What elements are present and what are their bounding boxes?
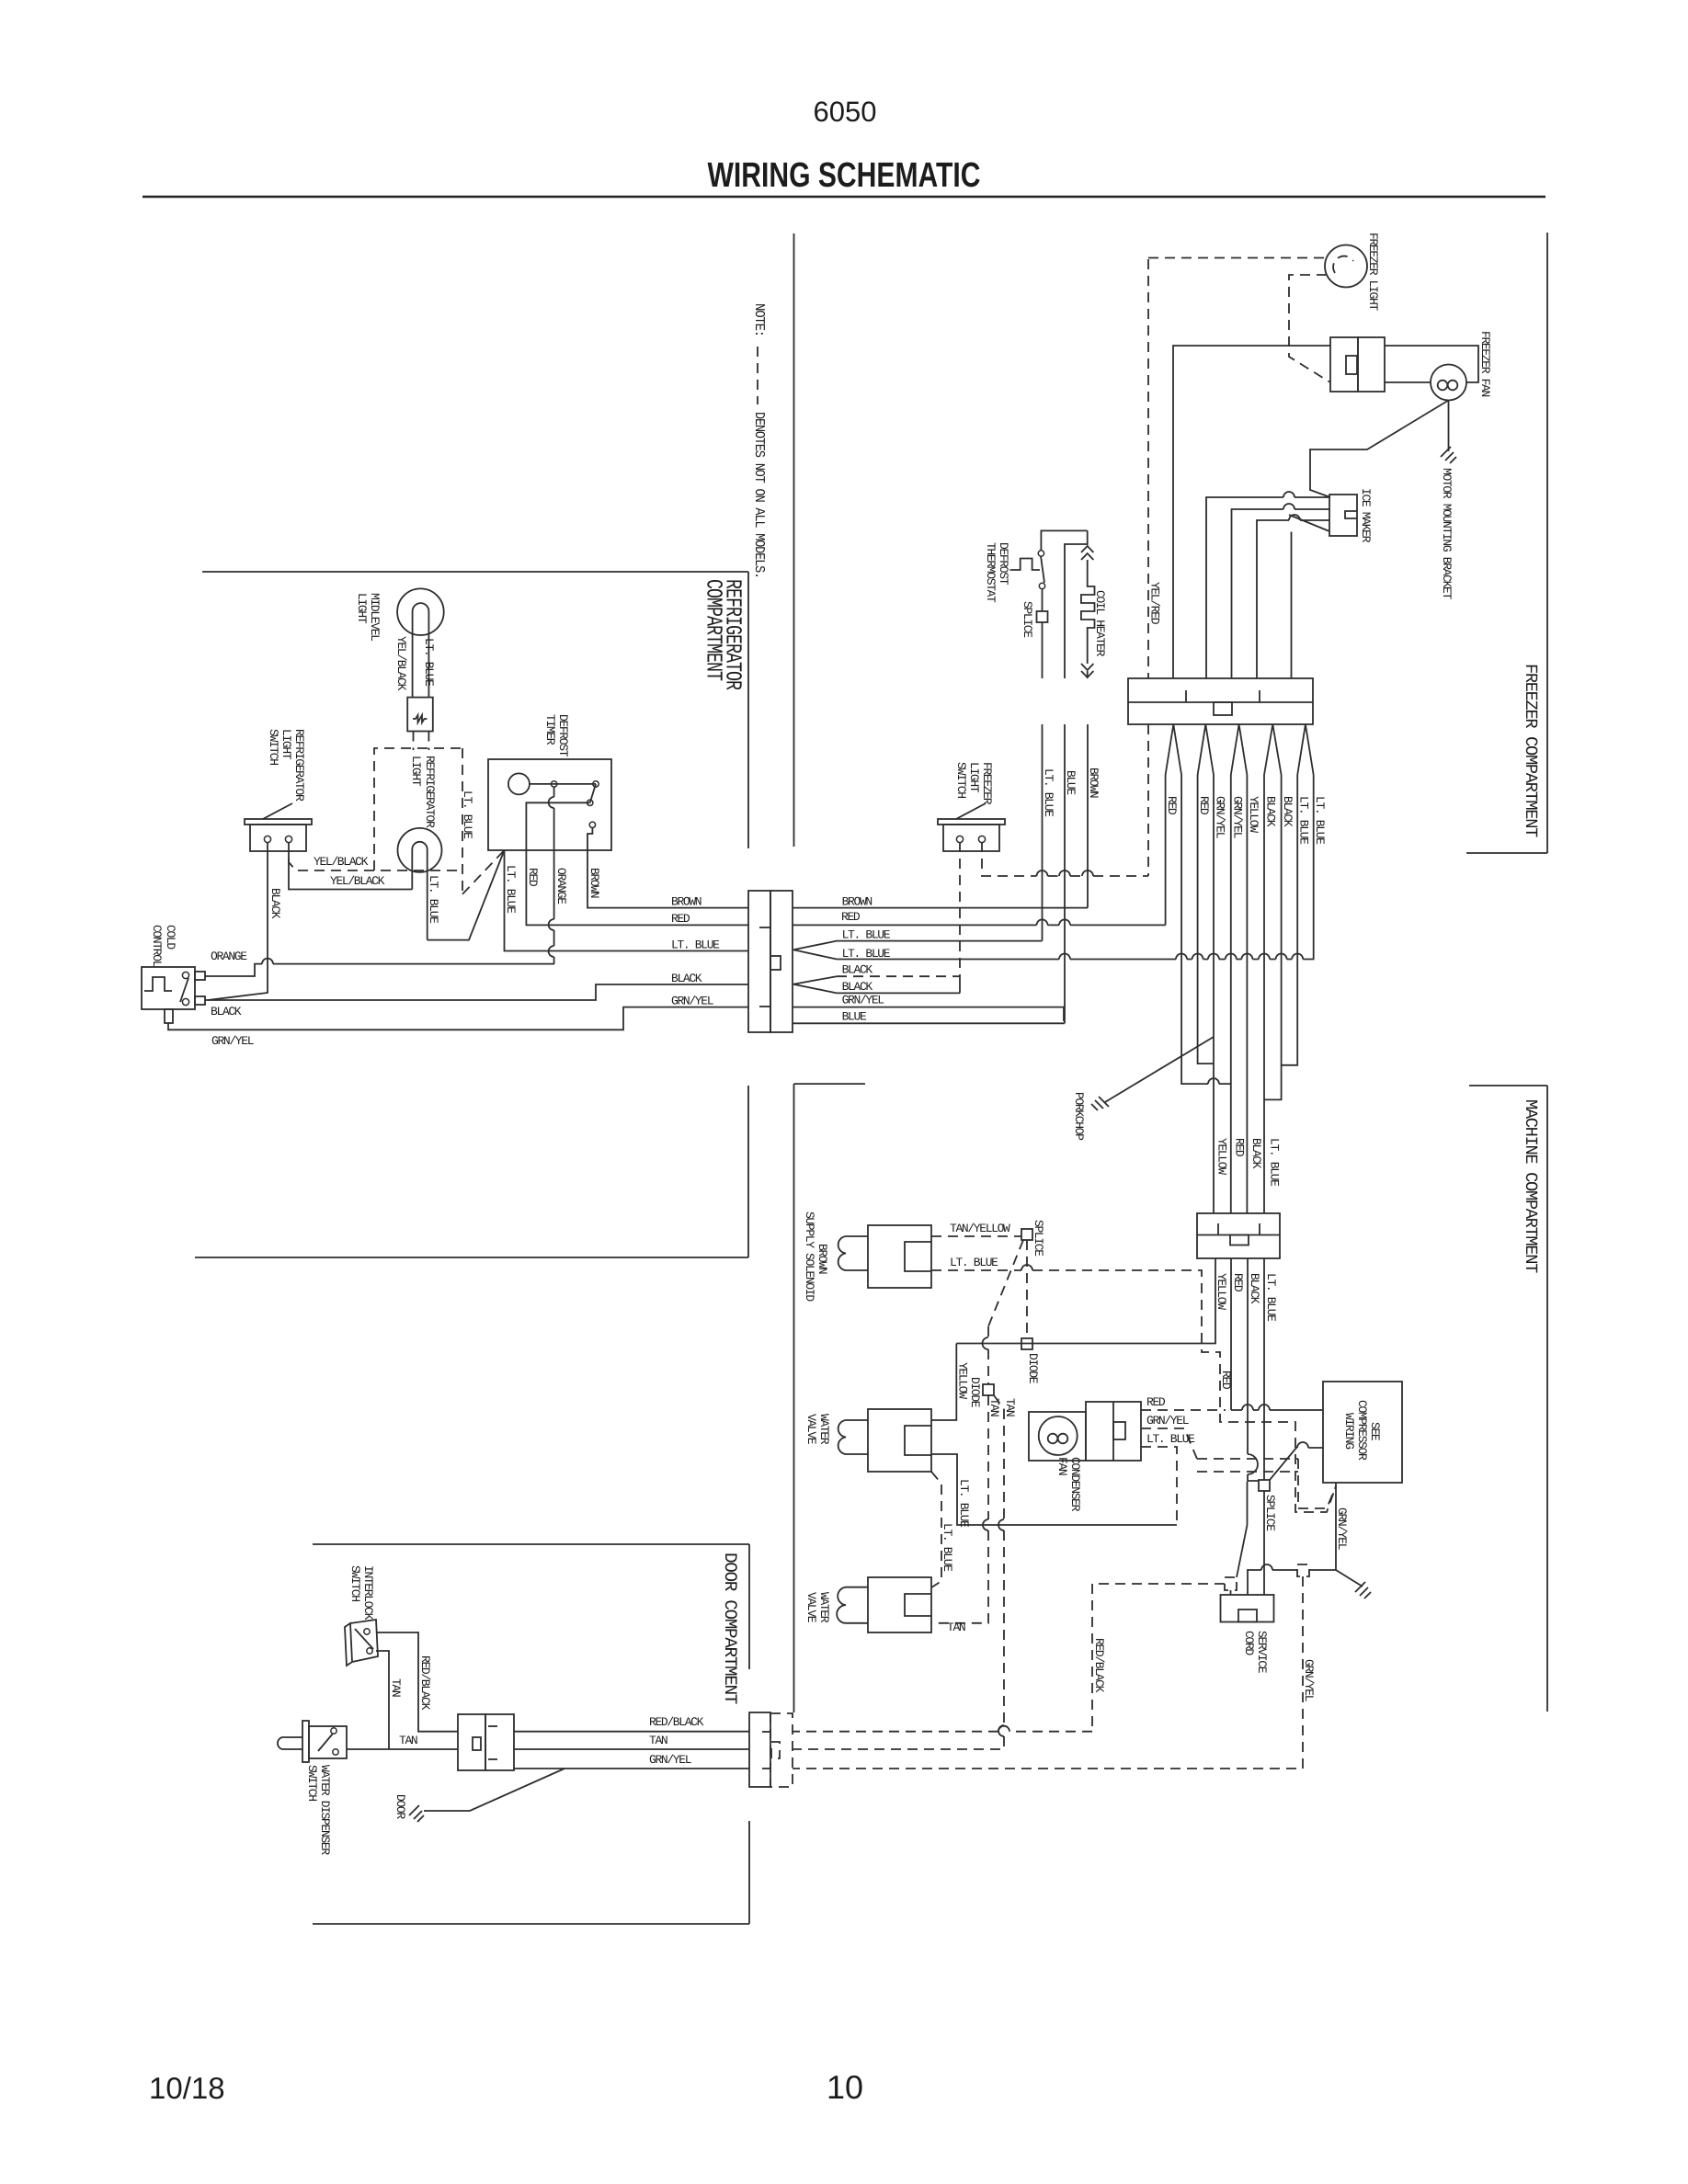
svg-text:SUPPLY SOLENOID: SUPPLY SOLENOID <box>803 1211 816 1302</box>
coil heater element <box>1081 560 1095 664</box>
svg-text:DOOR: DOOR <box>393 1794 407 1819</box>
svg-text:GRN/YEL: GRN/YEL <box>211 1034 254 1048</box>
wire BROWN below connector <box>1087 724 1089 908</box>
service cord body <box>1221 1595 1274 1622</box>
wire harness drop 1302 with step <box>1198 775 1214 1064</box>
door boundary connector dashed half <box>770 1713 793 1787</box>
refrigerator light switch screw left <box>264 836 270 842</box>
cold control switch blade <box>180 978 188 1002</box>
compressor wiring box <box>1323 1382 1402 1483</box>
wire splice 3 stub to service cord <box>1230 1590 1232 1595</box>
refrigerator light switch screw right <box>285 836 291 842</box>
splice square (freezer) <box>1037 611 1048 622</box>
svg-text:PORKCHOP: PORKCHOP <box>1072 1092 1086 1141</box>
svg-text:COLD: COLD <box>164 925 177 950</box>
door compartment border top <box>313 1543 749 1545</box>
wire TAN dispenser to connector <box>347 1748 458 1750</box>
svg-text:YELLOW: YELLOW <box>1215 1273 1228 1310</box>
orange hop over LT. BLUE <box>549 946 554 957</box>
svg-text:TAN: TAN <box>987 1398 1001 1416</box>
svg-text:RED: RED <box>841 910 861 924</box>
svg-text:YEL/BLACK: YEL/BLACK <box>314 855 369 869</box>
svg-text:LT. BLUE: LT. BLUE <box>461 791 474 839</box>
svg-text:GRN/YEL: GRN/YEL <box>1214 796 1227 838</box>
wire YEL/BLACK dashed switch to option box <box>289 842 462 870</box>
svg-text:BROWN: BROWN <box>1087 768 1101 798</box>
svg-text:BLACK: BLACK <box>842 963 873 977</box>
wire refrigerator light LT. BLUE to timer <box>428 850 505 940</box>
svg-text:COIL HEATER: COIL HEATER <box>1093 590 1107 657</box>
freezer light switch body <box>943 825 999 851</box>
svg-text:TAN: TAN <box>399 1734 417 1747</box>
door connector left half <box>458 1714 485 1770</box>
wire diode 2 to TAN drop 2 <box>994 1395 1004 1409</box>
freezer light switch screw left <box>956 836 963 842</box>
wire TAN interlock <box>376 1651 389 1749</box>
diode 1 <box>1021 1338 1032 1349</box>
machine connector tick right <box>1259 1223 1260 1235</box>
cold control bottom stub <box>165 1009 173 1023</box>
harness fan 5 <box>1297 724 1314 775</box>
ground symbol compressor <box>1355 1582 1371 1598</box>
svg-text:MACHINE COMPARTMENT: MACHINE COMPARTMENT <box>1521 1099 1540 1273</box>
svg-text:RED/BLACK: RED/BLACK <box>1092 1638 1106 1693</box>
water valve 2 connector slot <box>905 1594 931 1616</box>
svg-text:DEFROST: DEFROST <box>556 714 570 757</box>
wire fan to mounting bracket <box>1310 401 1449 498</box>
svg-text:RED/BLACK: RED/BLACK <box>418 1655 432 1711</box>
wire TAN/YELLOW dashed to splice <box>931 1235 1021 1237</box>
svg-text:TAN: TAN <box>947 1621 965 1634</box>
svg-text:LT. BLUE: LT. BLUE <box>671 938 720 952</box>
svg-text:TAN: TAN <box>649 1734 667 1747</box>
svg-text:SPLICE: SPLICE <box>1032 1220 1045 1257</box>
refrigerator connector tick lower <box>759 1006 770 1007</box>
svg-text:RED/BLACK: RED/BLACK <box>649 1715 704 1729</box>
compressor relay box <box>1086 1402 1141 1461</box>
water valve 1 coil <box>838 1420 868 1454</box>
door compartment border right lower <box>748 1821 750 1924</box>
freezer main connector body <box>1128 678 1313 724</box>
freezer compartment border right <box>1546 233 1548 853</box>
svg-text:FREEZER COMPARTMENT: FREEZER COMPARTMENT <box>1521 664 1540 837</box>
note dash sample <box>757 347 758 404</box>
svg-text:DOOR COMPARTMENT: DOOR COMPARTMENT <box>720 1553 740 1704</box>
wire GRN/YEL dashed from relay <box>1141 1428 1336 1508</box>
note divider line <box>793 233 795 847</box>
wire YELLOW into water valve 1 <box>931 1344 956 1421</box>
freezer fan motor windings <box>1438 381 1448 391</box>
svg-text:TAN: TAN <box>389 1678 403 1697</box>
wire BLUE right of connector <box>793 1022 1065 1024</box>
svg-text:LT. BLUE: LT. BLUE <box>957 1479 971 1528</box>
wire LT. BLUE below connector <box>1042 724 1044 941</box>
svg-text:BLACK: BLACK <box>1248 1273 1261 1304</box>
svg-text:YEL/BLACK: YEL/BLACK <box>330 874 385 888</box>
dashed option box right edge <box>462 748 463 894</box>
freezer light switch lever <box>956 803 986 819</box>
refrigerator light bulb <box>398 828 442 872</box>
svg-text:GRN/YEL: GRN/YEL <box>842 994 884 1007</box>
wire timer BROWN drop <box>587 827 748 908</box>
wire LT. BLUE dashed branch to water valve 2 <box>931 1472 941 1587</box>
water valve 1 connector slot <box>905 1426 931 1455</box>
refrigerator cabinet connector left half <box>748 891 770 1032</box>
freezer fan connector left half <box>1330 337 1358 392</box>
RED hop over BLUE vertical <box>1059 919 1070 925</box>
BLACK hop over diagonal <box>1289 515 1300 520</box>
LT.BLUE dashed hop over splice drop <box>1021 1265 1032 1270</box>
svg-text:DIODE: DIODE <box>1026 1353 1040 1384</box>
defrost timer contact dot 4 <box>589 822 595 827</box>
wire splice to compressor box <box>1270 1448 1323 1480</box>
svg-text:NOTE:: NOTE: <box>751 303 767 336</box>
wire midlevel dashed stub left <box>413 732 415 751</box>
BLACK hops over dashed runs <box>1248 1454 1258 1474</box>
svg-text:RED: RED <box>1146 1395 1166 1409</box>
wire TAN dashed drop 2 <box>793 1409 1004 1749</box>
refrigerator cabinet connector right half <box>770 891 793 1032</box>
defrost thermostat contact upper <box>1038 551 1044 556</box>
door connector tick upper <box>488 1725 497 1727</box>
wire YEL/BLACK solid switch to refrigerator light <box>289 851 412 890</box>
wire harness drop 1411 with step <box>1282 775 1298 1065</box>
svg-text:THERMOSTAT: THERMOSTAT <box>984 542 998 603</box>
freezer light bulb <box>1325 245 1367 288</box>
svg-text:MOTOR MOUNTING BRACKET: MOTOR MOUNTING BRACKET <box>1440 468 1454 599</box>
wire YELLOW below machine connector <box>956 1258 1215 1344</box>
svg-text:LT. BLUE: LT. BLUE <box>504 865 518 914</box>
wire BLACK feeder to machine connector <box>1246 775 1248 1213</box>
orange hop over RED <box>549 919 554 930</box>
wire RED/BLACK interlock <box>376 1632 458 1732</box>
wire LT. BLUE branch 2 (long) <box>837 775 1314 960</box>
wire fan connector to fan motor top <box>1385 346 1478 382</box>
svg-text:ORANGE: ORANGE <box>211 950 247 963</box>
wire BLUE bypass <box>1065 544 1088 678</box>
refrigerator light filament <box>412 842 427 940</box>
freezer light filament (dashed) <box>1333 256 1353 273</box>
wire GRN/YEL cold control <box>168 1007 748 1030</box>
svg-text:BROWN: BROWN <box>671 895 701 909</box>
svg-text:LT. BLUE: LT. BLUE <box>427 875 440 924</box>
wire YEL/RED dashed top run <box>1148 257 1325 259</box>
wire BLACK cold control to connector <box>205 984 748 1000</box>
cold control contact lower <box>182 998 188 1005</box>
wire GRN/YEL compressor ground <box>1336 1483 1363 1587</box>
svg-text:LIGHT: LIGHT <box>409 756 423 787</box>
wire ORANGE hop over BLACK <box>262 959 273 964</box>
svg-text:LIGHT: LIGHT <box>967 762 981 793</box>
wire BROWN right of connector <box>793 907 1088 909</box>
svg-text:10: 10 <box>827 2068 863 2106</box>
wire RED right of connector <box>793 924 1166 926</box>
midlevel light connector fuse link <box>413 715 428 722</box>
wire LT. BLUE splice to connector <box>1042 622 1044 678</box>
harness fan 3 <box>1231 724 1248 775</box>
RED hops over BLACK and LT.BLUE <box>1242 1405 1270 1410</box>
brown supply solenoid coil <box>838 1236 868 1270</box>
defrost timer contact dot 3 <box>587 800 593 805</box>
wire splice 3 riser to splice 2 <box>1237 1482 1248 1577</box>
defrost timer motor <box>508 773 530 794</box>
svg-text:TAN: TAN <box>1003 1398 1017 1416</box>
wire timer RED (dot3 to left drop) <box>526 802 748 925</box>
svg-text:LT. BLUE: LT. BLUE <box>1042 768 1055 817</box>
wire LT. BLUE feeder to machine connector <box>1263 775 1265 1213</box>
svg-text:YELLOW: YELLOW <box>1215 1138 1229 1175</box>
freezer fan connector key notch <box>1346 356 1357 374</box>
splice square 4 (dashed) <box>1297 1564 1309 1576</box>
machine compartment border right <box>1546 1086 1548 1712</box>
svg-text:CONDENSER: CONDENSER <box>1068 1457 1082 1512</box>
svg-text:BLACK: BLACK <box>1264 796 1278 827</box>
refrigerator compartment border bottom <box>195 1257 748 1258</box>
LT.BLUE2 hop arcs <box>1059 954 1303 960</box>
svg-text:TAN/YELLOW: TAN/YELLOW <box>950 1222 1010 1235</box>
refrigerator compartment border right upper <box>747 572 749 848</box>
door boundary connector notch <box>771 1742 780 1758</box>
wire dashed splice to TAN drop <box>988 1240 1023 1326</box>
condenser fan bracket <box>1029 1412 1086 1461</box>
wire freezer switch right leg dashed <box>982 842 1148 876</box>
wire RED below machine connector <box>1230 1258 1232 1410</box>
wire LT. BLUE thermostat to splice <box>1042 589 1044 611</box>
svg-text:GRN/YEL: GRN/YEL <box>671 995 713 1008</box>
svg-text:WATER: WATER <box>817 1414 831 1445</box>
wire RED dashed from relay <box>1141 1409 1226 1411</box>
svg-text:LIGHT: LIGHT <box>355 593 369 624</box>
wire RED/BLACK dashed run <box>793 1584 1225 1732</box>
svg-text:RED: RED <box>1197 796 1211 815</box>
svg-text:YEL/RED: YEL/RED <box>1148 582 1162 625</box>
brown supply solenoid connector <box>868 1225 931 1288</box>
wire LT. BLUE water valve to compressor run <box>931 1454 1177 1525</box>
wire GRN/YEL right of connector <box>793 1007 1064 1021</box>
svg-text:LT. BLUE: LT. BLUE <box>941 1523 954 1572</box>
svg-text:LT. BLUE: LT. BLUE <box>422 638 436 687</box>
svg-text:SPLICE: SPLICE <box>1263 1495 1277 1531</box>
svg-text:CORD: CORD <box>1242 1631 1256 1655</box>
freezer light switch screw right <box>978 836 985 842</box>
wire dashed relay LT. BLUE riser <box>1141 1447 1177 1525</box>
GRN/YEL hop over LT. BLUE drop <box>1261 1564 1272 1570</box>
svg-text:WATER DISPENSER: WATER DISPENSER <box>318 1765 332 1855</box>
brown supply solenoid connector slot <box>905 1242 931 1271</box>
splice square (service) <box>1259 1480 1270 1491</box>
wire BLACK dashed branch <box>837 975 960 977</box>
svg-text:LT. BLUE: LT. BLUE <box>842 947 891 961</box>
svg-text:DEFROST: DEFROST <box>997 542 1010 586</box>
wire timer ORANGE drop <box>553 787 555 964</box>
door compartment border bottom <box>313 1923 749 1925</box>
RED/BLACK hop over TAN <box>998 1726 1009 1732</box>
svg-text:WIRING: WIRING <box>1342 1413 1356 1449</box>
svg-text:FREEZER: FREEZER <box>980 762 994 805</box>
wire BLUE below connector <box>1064 724 1066 1023</box>
cold control terminal upper <box>195 972 205 980</box>
cold control bellows symbol <box>144 977 172 991</box>
door boundary connector solid half <box>749 1712 770 1787</box>
svg-text:CONTROL: CONTROL <box>150 925 164 967</box>
TAN2 hop over LT.BLUE run <box>998 1519 1004 1530</box>
refrigerator compartment border right lower <box>747 1086 749 1257</box>
ice maker connector notch <box>1345 511 1357 518</box>
condenser fan motor <box>1039 1416 1078 1455</box>
svg-text:COMPARTMENT: COMPARTMENT <box>701 579 725 680</box>
coil heater break chevrons bottom <box>1081 664 1093 678</box>
svg-text:BROWN: BROWN <box>842 895 873 909</box>
defrost timer box <box>488 759 611 850</box>
water dispenser screw lower <box>333 1749 338 1755</box>
wire harness drop 1285 with step <box>1181 775 1230 1084</box>
svg-text:DENOTES NOT ON ALL MODELS.: DENOTES NOT ON ALL MODELS. <box>751 412 767 578</box>
defrost timer cam wire <box>530 783 596 785</box>
freezer fan connector right half <box>1358 337 1385 392</box>
splice square (dispenser) <box>1021 1229 1032 1240</box>
ground symbol porkchop <box>1091 1097 1109 1110</box>
wire YELLOW to ice maker <box>1232 509 1330 678</box>
water valve 1 connector <box>868 1409 931 1472</box>
wire dashed splice to diode <box>1026 1240 1028 1338</box>
svg-text:BLACK: BLACK <box>1281 796 1295 827</box>
machine connector tick left <box>1217 1223 1219 1235</box>
svg-text:MIDLEVEL: MIDLEVEL <box>368 593 382 641</box>
orange hop over cam wire <box>549 797 554 808</box>
wire BLACK solid branch <box>837 992 960 994</box>
water dispenser screw upper <box>331 1728 336 1734</box>
door boundary connector tick upper <box>762 1731 770 1733</box>
svg-text:COMPRESSOR: COMPRESSOR <box>1355 1400 1369 1461</box>
midlevel light filament <box>413 603 429 698</box>
wire freezer switch left leg dashed <box>959 842 961 976</box>
svg-text:BLUE: BLUE <box>842 1009 867 1023</box>
harness fan 4 <box>1264 724 1282 775</box>
wire RED solid to compressor <box>1231 1409 1323 1411</box>
refrigerator connector key notch <box>770 956 781 970</box>
wire YEL/RED dashed riser <box>1147 259 1149 876</box>
wire RED/BLACK door run <box>514 1731 749 1733</box>
harness fan 2 <box>1198 724 1214 775</box>
door connector tick lower <box>488 1758 497 1760</box>
freezer main connector tick right <box>1259 690 1260 702</box>
svg-text:BROWN: BROWN <box>815 1244 829 1274</box>
wire thermostat top <box>1041 530 1087 551</box>
machine compartment connector body <box>1197 1213 1280 1258</box>
wire RED feeder to machine connector <box>1230 775 1232 1213</box>
machine connector divider <box>1197 1234 1280 1236</box>
compressor relay divider <box>1112 1402 1114 1461</box>
svg-text:RED: RED <box>671 912 690 926</box>
TAN2 hop over RED/BLACK run <box>998 1725 1004 1736</box>
svg-text:YEL/BLACK: YEL/BLACK <box>394 636 408 691</box>
YELLOW hop over LT.BLUE <box>1283 504 1295 509</box>
wire GRN/YEL dashed drop to door <box>793 1576 1303 1769</box>
wire LT. BLUE fan from connector <box>793 941 837 960</box>
svg-text:SWITCH: SWITCH <box>267 729 280 765</box>
svg-text:LT. BLUE: LT. BLUE <box>1268 1138 1282 1187</box>
svg-text:BLACK: BLACK <box>1249 1138 1263 1169</box>
interlock switch screw lower <box>367 1648 372 1654</box>
svg-text:SPLICE: SPLICE <box>1021 601 1034 638</box>
water dispenser switch plate <box>302 1721 309 1762</box>
svg-text:10/18: 10/18 <box>149 2071 225 2105</box>
door connector key notch <box>473 1737 481 1750</box>
svg-text:BLACK: BLACK <box>842 980 873 994</box>
machine compartment border left <box>793 1084 795 1712</box>
machine compartment border top-right piece <box>1469 1085 1547 1086</box>
svg-text:RED: RED <box>526 868 540 887</box>
freezer main connector key notch <box>1214 702 1232 715</box>
water valve 2 connector <box>868 1577 931 1632</box>
svg-text:ORANGE: ORANGE <box>554 868 568 904</box>
water valve 2 coil <box>837 1587 868 1623</box>
compressor relay inner element <box>1113 1422 1125 1439</box>
refrigerator connector tick upper <box>759 927 770 928</box>
GRN/YEL hop over LT.BLUE <box>1283 492 1295 497</box>
svg-text:VALVE: VALVE <box>804 1414 818 1445</box>
svg-text:BROWN: BROWN <box>587 868 601 898</box>
interlock switch screw upper <box>364 1629 370 1634</box>
svg-text:RED: RED <box>1165 796 1179 815</box>
wire TAN dashed drop 1 <box>931 1326 988 1623</box>
freezer fan motor <box>1431 365 1466 401</box>
svg-text:6050: 6050 <box>814 96 877 128</box>
wire midlevel dashed stub right <box>428 732 429 751</box>
wire GRN/YEL to ice maker <box>1206 497 1329 678</box>
wire TAN door run <box>514 1748 749 1750</box>
wire RED to fan connector <box>1173 346 1330 678</box>
svg-text:GRN/YEL: GRN/YEL <box>1302 1659 1316 1701</box>
svg-text:FREEZER LIGHT: FREEZER LIGHT <box>1366 233 1380 311</box>
freezer light switch plate <box>938 819 1005 825</box>
defrost thermostat contact lower <box>1039 583 1044 588</box>
cold control body <box>142 967 195 1009</box>
wire GRN/YEL door run <box>514 1768 749 1769</box>
refrigerator light switch lever <box>263 803 292 819</box>
cold control contact upper <box>182 972 188 978</box>
svg-text:GRN/YEL: GRN/YEL <box>1335 1507 1349 1550</box>
wire RED harness drop to refrigerator run <box>1165 775 1167 925</box>
svg-text:LT. BLUE: LT. BLUE <box>950 1256 998 1269</box>
dashed diagonal option box to timer corner <box>462 850 505 894</box>
svg-text:SWITCH: SWITCH <box>348 1565 362 1601</box>
svg-text:LT. BLUE: LT. BLUE <box>1146 1432 1195 1446</box>
door boundary connector tick lower <box>762 1768 770 1769</box>
svg-text:LT. BLUE: LT. BLUE <box>842 928 891 942</box>
svg-text:YELLOW: YELLOW <box>1247 796 1260 833</box>
TAN1 hop over LT.BLUE run <box>983 1337 988 1530</box>
cold control terminal lower <box>195 996 205 1005</box>
RED hop over LT.BLUE vertical <box>1037 919 1048 925</box>
wire ORANGE cold control to timer <box>205 964 554 976</box>
heading rule <box>143 196 1545 199</box>
machine connector key notch <box>1230 1235 1249 1246</box>
svg-text:WATER: WATER <box>817 1592 831 1623</box>
svg-text:GRN/YEL: GRN/YEL <box>649 1753 691 1767</box>
svg-text:GRN/YEL: GRN/YEL <box>1230 796 1244 838</box>
svg-text:FREEZER FAN: FREEZER FAN <box>1478 331 1492 397</box>
svg-text:REFRIGERATOR: REFRIGERATOR <box>423 756 437 828</box>
interlock switch rocker <box>355 1629 373 1649</box>
wire harness drop 1393 with step <box>1264 775 1282 1099</box>
ground symbol motor mounting bracket <box>1441 447 1456 463</box>
wire BLACK to ice maker <box>1257 520 1329 678</box>
ground symbol door <box>409 1805 424 1822</box>
svg-text:SERVICE: SERVICE <box>1255 1631 1269 1674</box>
svg-text:BLACK: BLACK <box>211 1005 242 1018</box>
defrost timer blade <box>590 784 596 802</box>
